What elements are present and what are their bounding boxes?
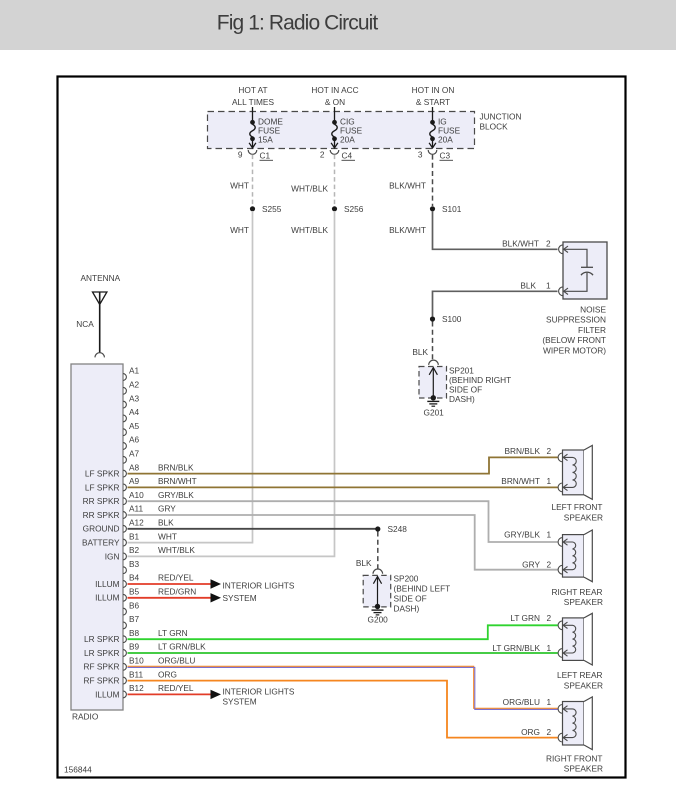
svg-text:BLK: BLK (520, 280, 536, 290)
svg-text:2: 2 (547, 446, 552, 456)
svg-text:RED/GRN: RED/GRN (158, 587, 196, 597)
svg-text:1: 1 (547, 530, 552, 540)
svg-text:B8: B8 (129, 628, 140, 638)
svg-text:& START: & START (416, 97, 450, 107)
fuse F3 IG FUSE 20A (428, 107, 437, 154)
splice SP200 connector arc (373, 569, 383, 574)
svg-text:ILLUM: ILLUM (95, 579, 120, 589)
svg-text:ILLUM: ILLUM (95, 593, 120, 603)
svg-text:BRN/BLK: BRN/BLK (158, 462, 194, 472)
radio pin A11 (123, 512, 126, 519)
radio pin B10 (123, 663, 126, 670)
svg-text:LT GRN/BLK: LT GRN/BLK (492, 643, 540, 653)
fuse F1 DOME FUSE 15A (248, 107, 257, 154)
wire RED/YEL B12 to interior lights (128, 693, 212, 695)
splice S255 (250, 206, 255, 211)
svg-text:2: 2 (547, 560, 552, 570)
svg-text:1: 1 (547, 476, 552, 486)
diagram frame (58, 77, 626, 778)
radio pin B2 (123, 553, 126, 560)
wire BRN/BLK A8 to left front speaker pin 2 (128, 457, 558, 473)
svg-text:GRY: GRY (158, 504, 176, 514)
ground G201 (427, 400, 439, 402)
splice S256 (332, 206, 337, 211)
svg-text:GROUND: GROUND (83, 524, 120, 534)
svg-text:DASH): DASH) (394, 603, 420, 613)
radio pin B3 (123, 567, 126, 574)
svg-text:ILLUM: ILLUM (95, 689, 120, 699)
svg-text:LT GRN/BLK: LT GRN/BLK (158, 642, 206, 652)
svg-text:ORG/BLU: ORG/BLU (158, 656, 195, 666)
svg-text:9: 9 (238, 150, 243, 160)
svg-text:& ON: & ON (325, 97, 345, 107)
svg-text:1: 1 (547, 697, 552, 707)
svg-text:SPEAKER: SPEAKER (564, 681, 603, 691)
svg-text:A1: A1 (129, 366, 140, 376)
splice S248 (375, 526, 380, 531)
svg-text:A9: A9 (129, 476, 140, 486)
svg-text:JUNCTION: JUNCTION (480, 112, 522, 122)
svg-text:LEFT FRONT: LEFT FRONT (551, 502, 602, 512)
wire BLK A12 to splice S248 (128, 528, 378, 530)
svg-text:2: 2 (547, 613, 552, 623)
svg-text:B6: B6 (129, 600, 140, 610)
svg-text:A6: A6 (129, 435, 140, 445)
svg-text:FILTER: FILTER (578, 325, 606, 335)
svg-text:B9: B9 (129, 642, 140, 652)
svg-text:S256: S256 (344, 204, 364, 214)
left front speaker (563, 450, 585, 495)
title banner (0, 0, 676, 50)
wire ORG B11 to right front speaker pin 2 (128, 681, 558, 738)
noise suppression filter box (563, 242, 607, 299)
radio pin A7 (123, 456, 126, 463)
svg-text:ANTENNA: ANTENNA (81, 273, 121, 283)
svg-text:HOT IN ACC: HOT IN ACC (311, 85, 358, 95)
svg-text:BRN/WHT: BRN/WHT (501, 476, 540, 486)
svg-text:ORG: ORG (521, 727, 540, 737)
wire RED/YEL B4 to interior lights (128, 583, 212, 585)
radio pin A12 (123, 525, 126, 532)
svg-text:A8: A8 (129, 462, 140, 472)
wire RED/GRN B5 to interior lights (128, 597, 212, 599)
svg-text:WHT: WHT (158, 531, 177, 541)
svg-text:G200: G200 (368, 615, 389, 625)
radio pin A4 (123, 415, 126, 422)
radio pin B9 (123, 650, 126, 657)
wire GRY A11 to right rear speaker pin 2 (128, 515, 558, 570)
svg-text:RADIO: RADIO (72, 712, 99, 722)
svg-text:GRY/BLK: GRY/BLK (504, 530, 540, 540)
svg-text:HOT IN ON: HOT IN ON (412, 85, 455, 95)
svg-text:LT GRN: LT GRN (158, 628, 188, 638)
radio pin B5 (123, 594, 126, 601)
noise filter pin 2 connector (559, 245, 563, 254)
svg-text:IGN: IGN (105, 551, 120, 561)
svg-text:156844: 156844 (64, 765, 92, 775)
wire BLK dashed S248 to SP200 (377, 532, 379, 570)
svg-text:RED/YEL: RED/YEL (158, 573, 194, 583)
svg-text:20A: 20A (438, 134, 453, 144)
svg-text:BATTERY: BATTERY (82, 538, 120, 548)
right rear speaker (563, 535, 585, 578)
svg-text:S101: S101 (442, 204, 462, 214)
svg-text:SIDE OF: SIDE OF (449, 385, 482, 395)
svg-text:WHT: WHT (230, 181, 249, 191)
svg-text:LR SPKR: LR SPKR (84, 634, 120, 644)
ground G200 (372, 609, 384, 611)
svg-text:A7: A7 (129, 449, 140, 459)
svg-text:2: 2 (546, 238, 551, 248)
svg-text:A2: A2 (129, 380, 140, 390)
svg-text:SPEAKER: SPEAKER (564, 597, 603, 607)
svg-text:Fig 1: Radio Circuit: Fig 1: Radio Circuit (217, 11, 379, 34)
svg-text:LEFT REAR: LEFT REAR (557, 670, 603, 680)
svg-text:1: 1 (547, 643, 552, 653)
radio pin A9 (123, 484, 126, 491)
svg-text:A12: A12 (129, 518, 144, 528)
svg-text:NOISE: NOISE (580, 305, 606, 315)
radio pin B6 (123, 608, 126, 615)
radio pin A1 (123, 374, 126, 381)
svg-text:A11: A11 (129, 504, 144, 514)
radio pin B7 (123, 622, 126, 629)
svg-text:WHT: WHT (230, 225, 249, 235)
svg-text:RIGHT REAR: RIGHT REAR (551, 587, 602, 597)
svg-text:G201: G201 (424, 407, 445, 417)
splice S100 (430, 316, 435, 321)
wire WHT/BLK dashed C4 to S256 (334, 155, 336, 206)
svg-text:B4: B4 (129, 573, 140, 583)
svg-text:BLK: BLK (412, 347, 428, 357)
svg-text:(BEHIND LEFT: (BEHIND LEFT (394, 583, 451, 593)
svg-text:LR SPKR: LR SPKR (84, 648, 120, 658)
svg-text:SP200: SP200 (394, 573, 419, 583)
wire BLK dashed S100 to SP201 (432, 322, 434, 361)
svg-text:BLK: BLK (158, 518, 174, 528)
radio U1 box (71, 364, 123, 710)
wire LT GRN B8 to left rear speaker pin 2 (128, 625, 558, 639)
svg-text:B3: B3 (129, 559, 140, 569)
svg-text:RR SPKR: RR SPKR (83, 510, 120, 520)
svg-text:2: 2 (547, 727, 552, 737)
svg-text:DASH): DASH) (449, 394, 475, 404)
svg-text:C1: C1 (260, 151, 271, 161)
svg-text:LF SPKR: LF SPKR (85, 469, 120, 479)
svg-text:WHT/BLK: WHT/BLK (158, 545, 195, 555)
svg-text:S255: S255 (262, 204, 282, 214)
svg-text:SP201: SP201 (449, 366, 474, 376)
splice SP200 dashed box (363, 575, 391, 607)
radio pin B8 (123, 636, 126, 643)
svg-text:A10: A10 (129, 490, 144, 500)
svg-text:SIDE OF: SIDE OF (394, 593, 427, 603)
svg-text:C4: C4 (342, 151, 353, 161)
svg-text:ALL TIMES: ALL TIMES (232, 97, 274, 107)
svg-text:2: 2 (320, 150, 325, 160)
svg-text:BRN/BLK: BRN/BLK (504, 446, 540, 456)
svg-text:BLK/WHT: BLK/WHT (389, 181, 426, 191)
svg-text:(BEHIND RIGHT: (BEHIND RIGHT (449, 375, 511, 385)
radio pin A2 (123, 387, 126, 394)
svg-text:A4: A4 (129, 407, 140, 417)
svg-text:ORG: ORG (158, 669, 177, 679)
svg-text:WHT/BLK: WHT/BLK (291, 184, 328, 194)
svg-text:BRN/WHT: BRN/WHT (158, 476, 197, 486)
svg-text:20A: 20A (340, 134, 355, 144)
wire BLK noise filter pin 1 to S100 (433, 291, 558, 316)
svg-text:B2: B2 (129, 545, 140, 555)
splice S101 (430, 206, 435, 211)
noise filter pin 1 connector (559, 287, 563, 296)
wire BRN/WHT A9 to left front speaker pin 1 (128, 486, 558, 488)
svg-text:RIGHT FRONT: RIGHT FRONT (546, 753, 603, 763)
wire WHT dashed C1 to S255 (252, 155, 254, 206)
wire ORG/BLU B10 to right front speaker pin 1 (two tone) (128, 666, 558, 708)
radio pin B12 (123, 691, 126, 698)
radio pin B4 (123, 581, 126, 588)
wire BLK/WHT dashed C3 to S101 (432, 155, 434, 206)
svg-text:BLK/WHT: BLK/WHT (502, 238, 539, 248)
radio pin B11 (123, 677, 126, 684)
svg-text:RR SPKR: RR SPKR (83, 496, 120, 506)
right front speaker (563, 702, 585, 746)
svg-text:INTERIOR LIGHTS: INTERIOR LIGHTS (223, 581, 295, 591)
radio pin B1 (123, 539, 126, 546)
svg-text:BLK: BLK (356, 558, 372, 568)
svg-text:B10: B10 (129, 656, 144, 666)
svg-text:(BELOW FRONT: (BELOW FRONT (542, 335, 606, 345)
radio pin A8 (123, 470, 126, 477)
svg-text:B1: B1 (129, 531, 140, 541)
svg-text:3: 3 (418, 150, 423, 160)
svg-text:S248: S248 (388, 524, 408, 534)
svg-text:RF SPKR: RF SPKR (84, 662, 120, 672)
svg-text:B7: B7 (129, 614, 140, 624)
svg-text:A5: A5 (129, 421, 140, 431)
radio pin A10 (123, 498, 126, 505)
splice SP201 connector arc (429, 360, 439, 365)
splice SP201 dashed box (419, 367, 447, 399)
svg-text:HOT AT: HOT AT (238, 85, 267, 95)
svg-text:B5: B5 (129, 587, 140, 597)
svg-text:SYSTEM: SYSTEM (223, 696, 257, 706)
svg-text:SPEAKER: SPEAKER (564, 512, 603, 522)
svg-text:SUPPRESSION: SUPPRESSION (546, 315, 606, 325)
svg-text:BLK/WHT: BLK/WHT (389, 225, 426, 235)
svg-text:RED/YEL: RED/YEL (158, 683, 194, 693)
radio pin A3 (123, 401, 126, 408)
capacitor C inside noise filter (565, 249, 588, 267)
svg-text:INTERIOR LIGHTS: INTERIOR LIGHTS (223, 687, 295, 697)
junction block (208, 112, 475, 149)
wire LT GRN/BLK B9 to left rear speaker pin 1 (128, 652, 558, 654)
svg-text:C3: C3 (440, 151, 451, 161)
svg-text:B12: B12 (129, 683, 144, 693)
antenna connector arc at radio (95, 353, 104, 358)
svg-text:SPEAKER: SPEAKER (564, 764, 603, 774)
svg-text:LT GRN: LT GRN (510, 613, 540, 623)
svg-text:LF SPKR: LF SPKR (85, 482, 120, 492)
radio pin A6 (123, 443, 126, 450)
svg-text:NCA: NCA (76, 319, 94, 329)
svg-text:15A: 15A (258, 134, 273, 144)
wire GRY/BLK A10 to right rear speaker pin 1 (128, 501, 558, 542)
svg-text:ORG/BLU: ORG/BLU (503, 697, 540, 707)
svg-text:WIPER MOTOR): WIPER MOTOR) (543, 345, 606, 355)
svg-text:BLOCK: BLOCK (480, 122, 509, 132)
svg-text:WHT/BLK: WHT/BLK (291, 225, 328, 235)
svg-text:1: 1 (546, 280, 551, 290)
svg-text:GRY: GRY (522, 560, 540, 570)
radio pin A5 (123, 429, 126, 436)
svg-text:S100: S100 (442, 314, 462, 324)
svg-text:A3: A3 (129, 393, 140, 403)
svg-text:SYSTEM: SYSTEM (223, 593, 257, 603)
fuse F2 CIG FUSE 20A (330, 107, 339, 154)
svg-text:B11: B11 (129, 669, 144, 679)
svg-text:RF SPKR: RF SPKR (84, 676, 120, 686)
svg-text:GRY/BLK: GRY/BLK (158, 490, 194, 500)
left rear speaker (563, 618, 585, 661)
